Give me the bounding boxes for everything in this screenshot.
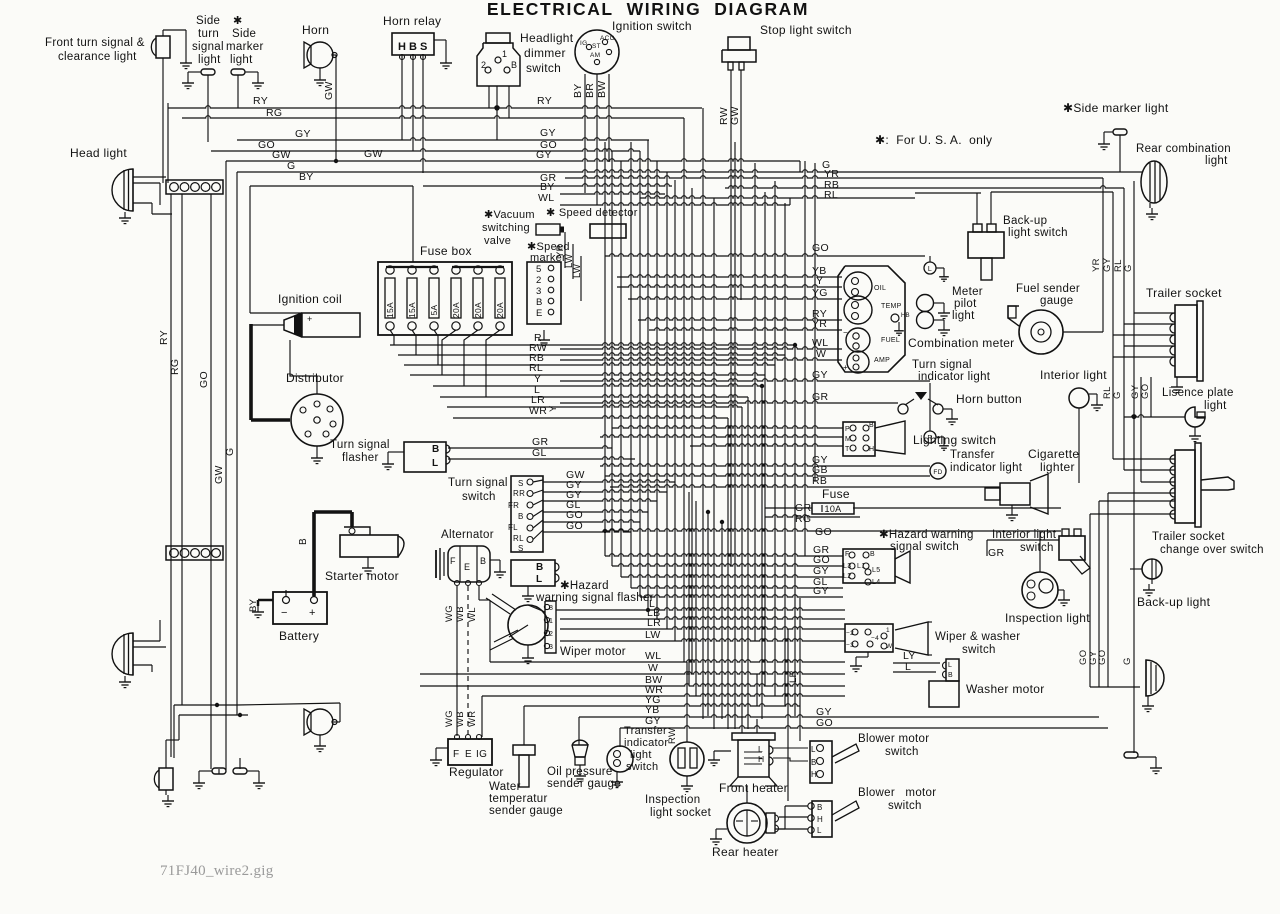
svg-text:light: light [230,54,253,66]
alt wire labels [444,605,478,622]
wire vertical runs [163,55,1151,803]
svg-text:RG: RG [169,359,181,375]
svg-text:switch: switch [462,491,496,503]
svg-text:3: 3 [549,644,553,651]
svg-text:GR: GR [988,547,1004,559]
interior light label [1040,368,1107,382]
svg-text:AMP: AMP [874,357,890,364]
svg-text:gauge: gauge [1040,295,1073,307]
svg-text:L2: L2 [843,573,851,580]
svg-text:temperatur: temperatur [489,793,548,805]
svg-text:20A: 20A [495,302,505,318]
ignition switch label [612,19,692,33]
battery [273,590,327,624]
blower motor switch (front) [810,741,859,783]
svg-text:WB: WB [455,711,466,727]
svg-text:clearance light: clearance light [58,51,137,63]
head light (bottom) [112,620,166,688]
svg-text:WR: WR [529,405,547,417]
svg-text:−3: −3 [846,642,854,649]
svg-text:FUEL: FUEL [881,337,900,344]
interior light [1069,388,1103,411]
svg-text:S: S [518,544,524,553]
blower switch1 label [858,733,929,758]
wire labels top-left [253,95,314,183]
svg-text:GO: GO [815,526,832,538]
inspection light label [1005,611,1090,625]
wiper and washer switch [845,622,932,672]
speed marker hooks [554,232,575,301]
svg-text:1: 1 [886,627,890,634]
svg-text:Meter: Meter [952,286,983,298]
alt wire labels2 [444,710,478,727]
svg-text:B: B [869,422,874,429]
lighting switch [843,421,905,456]
svg-text:flasher: flasher [342,452,379,464]
svg-text:Blower motor: Blower motor [858,787,936,799]
svg-text:10A: 10A [825,504,842,514]
svg-text:L: L [928,266,932,273]
regulator label [449,765,504,779]
stop light switch [722,37,756,70]
svg-text:G: G [1112,391,1123,399]
svg-text:switch: switch [1020,542,1054,554]
svg-text:✱: ✱ [233,15,243,27]
transfer indicator light switch [607,746,633,788]
svg-text:GY: GY [536,149,552,161]
wiper washer label [935,631,1020,656]
svg-text:indicator: indicator [624,737,668,749]
interior light switch label [992,529,1057,554]
svg-text:B: B [298,538,309,545]
svg-text:GW: GW [323,81,335,100]
svg-text:IG: IG [476,749,487,760]
svg-text:LR: LR [788,670,799,683]
svg-text:Interior light: Interior light [1040,368,1107,382]
svg-text:dimmer: dimmer [524,46,566,60]
wire labels RW GW stop [718,106,741,125]
RW label bottom [667,728,678,744]
svg-text:2: 2 [549,631,553,638]
svg-text:Stop light switch: Stop light switch [760,23,852,37]
svg-text:RY: RY [158,330,170,345]
svg-text:FD: FD [933,469,942,476]
svg-text:WG: WG [444,710,455,727]
svg-text:20A: 20A [451,302,461,318]
licence plate light [1185,407,1205,442]
regulator [430,735,492,766]
svg-text:FL: FL [508,523,518,532]
horn button label [956,392,1022,406]
inspection light socket label [645,794,712,819]
svg-text:OIL: OIL [874,285,886,292]
svg-text:✱ Speed detector: ✱ Speed detector [546,207,638,219]
svg-text:B: B [518,512,524,521]
svg-text:GO: GO [566,520,583,532]
rear comb label [1136,143,1231,167]
turn signal switch [508,476,543,553]
side marker light (top) [231,69,264,89]
svg-text:Interior light: Interior light [992,529,1057,541]
svg-text:H: H [811,770,817,779]
svg-text:H: H [869,446,874,453]
horn (bottom) [304,703,340,752]
svg-text:H: H [398,41,406,53]
svg-text:HB: HB [901,313,910,319]
svg-text:Wiper & washer: Wiper & washer [935,631,1020,643]
ts switch out labels [566,469,585,532]
svg-text:Back-up light: Back-up light [1137,595,1211,609]
front heater [708,733,777,786]
distributor top wire [290,340,317,394]
svg-text:RB: RB [812,475,827,487]
connector strip 2 [166,546,223,560]
BY wire to coil hook [250,312,302,314]
battery ground [252,600,273,618]
speed marker label [527,241,570,264]
svg-text:ACC: ACC [600,35,615,42]
note usa [875,133,992,147]
hazard flasher label [535,580,654,604]
hazard switch label [879,529,974,553]
front turn signal label [45,37,145,63]
svg-text:IG: IG [580,40,587,47]
svg-text:✱Side marker light: ✱Side marker light [1063,101,1169,115]
right vert labels [1091,257,1134,272]
inspection light socket [670,742,704,792]
inspection light [1022,572,1070,608]
svg-text:RY: RY [253,95,268,107]
trailer socket label [1146,286,1222,300]
vacuum switching valve [536,224,564,235]
trailer socket co label [1152,531,1264,556]
svg-text:Lisence plate: Lisence plate [1162,387,1234,399]
bottom marker lamp (G) [1124,752,1162,774]
svg-text:change over switch: change over switch [1160,544,1264,556]
rear heater label [712,845,779,859]
svg-text:Y: Y [816,275,823,287]
watermark text [160,863,274,879]
backup sw label [1003,215,1068,239]
svg-text:E: E [465,749,472,760]
svg-text:L3: L3 [843,563,851,570]
wire horizontal bus [168,106,1185,728]
cable B label [298,538,309,545]
svg-text:ELECTRICAL WIRING DIAGRAM: ELECTRICAL WIRING DIAGRAM [487,0,809,19]
svg-text:Combination meter: Combination meter [908,336,1014,350]
svg-text:T: T [845,446,850,453]
svg-text:−2: −2 [846,630,854,637]
vert labels left [158,330,236,484]
svg-text:GO: GO [812,242,829,254]
ignition coil label [278,292,342,306]
svg-text:YR: YR [1091,258,1102,272]
svg-text:B: B [409,41,417,53]
ignition coil [251,313,360,337]
svg-text:LR: LR [647,617,661,629]
back-up light lower [1142,660,1164,712]
svg-text:light: light [1204,400,1227,412]
back-up light switch [968,224,1004,280]
side lamps bottom [193,768,265,789]
svg-text:B: B [536,562,544,573]
washer motor label [966,682,1045,696]
front turn signal (bottom) [154,768,174,807]
svg-text:RL: RL [513,534,524,543]
turn signal ind label [912,359,991,383]
svg-text:signal: signal [192,41,224,53]
svg-text:Washer motor: Washer motor [966,682,1045,696]
svg-text:F: F [453,749,459,760]
svg-text:Inspection: Inspection [645,794,700,806]
svg-text:BY: BY [299,171,314,183]
L pilot [924,262,949,281]
svg-text:H: H [758,754,764,764]
svg-text:5: 5 [536,264,542,275]
svg-text:Inspection light: Inspection light [1005,611,1090,625]
side turn signal label [192,15,224,66]
speed wire labels [548,244,583,412]
svg-text:F: F [450,556,456,566]
svg-text:Front turn signal &: Front turn signal & [45,37,145,49]
svg-text:L: L [811,745,816,754]
bottom left wires [166,703,340,774]
svg-text:WL: WL [538,192,554,204]
svg-text:Cigarette: Cigarette [1028,447,1079,461]
meter wire labels [812,242,829,487]
oil pressure label [547,766,621,790]
battery BY label [248,598,259,612]
svg-text:W: W [886,643,893,650]
lighting switch label [913,433,996,447]
svg-text:Head light: Head light [70,146,127,160]
svg-text:Trailer socket: Trailer socket [1152,531,1225,543]
svg-text:sender gauge: sender gauge [547,778,621,790]
svg-text:light switch: light switch [1008,227,1068,239]
fuel sender label [1016,283,1080,307]
fuse out labels [529,332,548,459]
turn signal switch pin wires [533,480,543,540]
svg-text:RG: RG [795,513,811,525]
wire labels BY BR BW [572,80,608,98]
front heater to blower wires [773,748,808,761]
headlight dimmer switch [477,33,520,111]
fuse box [378,262,512,335]
washer wires [893,663,940,672]
R pilot [924,431,949,450]
svg-text:indicator light: indicator light [950,462,1023,474]
fuel sender gauge [1008,306,1063,354]
svg-text:Regulator: Regulator [449,765,504,779]
svg-text:GW: GW [364,148,383,160]
svg-text:switch: switch [962,644,996,656]
svg-text:R: R [927,435,932,442]
svg-text:light: light [198,54,221,66]
combination meter [838,266,910,373]
horn (top) [304,42,338,163]
svg-text:+: + [843,363,848,372]
svg-text:switching: switching [482,222,530,234]
svg-text:GR: GR [812,391,828,403]
svg-text:20A: 20A [473,302,483,318]
svg-text:L: L [817,826,822,835]
fuse box output wires [390,330,500,397]
svg-text:Ignition coil: Ignition coil [278,292,342,306]
blower2 wires [775,806,808,829]
junction dots mesh [603,343,797,612]
water temperature sender gauge [513,741,535,787]
svg-text:GO: GO [1140,384,1151,399]
svg-text:Fuse box: Fuse box [420,244,472,258]
svg-text:B: B [948,672,953,679]
ignition coil to distributor cable (thick) [251,324,290,420]
speed marker box [527,262,561,346]
svg-text:Rear combination: Rear combination [1136,143,1231,155]
svg-text:15A: 15A [407,302,417,318]
svg-text:−: − [281,607,288,619]
svg-text:WG: WG [444,605,455,622]
connector strip (headlight harness top) [166,180,223,194]
svg-text:Y: Y [548,405,559,412]
svg-text:Starter motor: Starter motor [325,569,399,583]
svg-text:W: W [648,662,658,674]
svg-text:GY: GY [812,369,828,381]
svg-text:GL: GL [532,447,547,459]
svg-text:Side: Side [196,15,220,27]
svg-text:L1: L1 [857,563,865,570]
backup light label [1137,595,1211,609]
wire labels top-mid [364,95,557,204]
svg-text:light socket: light socket [650,807,712,819]
LR vert label [788,670,799,683]
fuse 10A [812,503,854,514]
fuse box label [420,244,472,258]
svg-text:BR: BR [584,83,596,98]
svg-text:E: E [536,308,543,319]
svg-text:15A: 15A [385,302,395,318]
svg-text:Horn button: Horn button [956,392,1022,406]
wiper wire labels [645,598,661,641]
turn signal switch label [448,477,508,503]
svg-text:Transfer: Transfer [624,725,667,737]
hazard row labels [813,544,830,597]
svg-text:S: S [420,41,428,53]
svg-text:5A: 5A [429,304,439,315]
svg-text:L5: L5 [872,567,880,574]
svg-text:WL: WL [467,607,478,622]
svg-text:GY: GY [540,127,556,139]
svg-text:W: W [816,348,826,360]
washer motor [929,659,959,707]
battery cable to starter (thick) [314,512,352,596]
side marker light (right) [1098,129,1127,172]
alternator [436,546,506,586]
svg-text:switch: switch [885,746,919,758]
svg-text:P: P [845,426,850,433]
svg-text:−: − [843,328,848,337]
svg-text:lighter: lighter [1040,460,1075,474]
svg-text:H: H [817,815,823,824]
blower motor switch (rear) [808,801,859,837]
svg-text:L4: L4 [872,579,880,586]
side turn signal light (top) [182,69,215,89]
svg-text:GY: GY [295,128,311,140]
svg-text:Rear heater: Rear heater [712,845,779,859]
svg-text:Headlight: Headlight [520,31,574,45]
water temp label [489,781,563,817]
svg-text:71FJ40_wire2.gig: 71FJ40_wire2.gig [160,863,274,879]
svg-text:S: S [518,479,524,488]
turn signal flasher label [330,439,390,464]
svg-text:G: G [1122,657,1133,665]
svg-text:Horn: Horn [302,23,329,37]
svg-text:signal switch: signal switch [890,541,959,553]
svg-text:Oil pressure: Oil pressure [547,766,613,778]
svg-text:✱Hazard warning: ✱Hazard warning [879,529,974,541]
battery label [279,629,319,643]
svg-text:B: B [511,60,517,70]
svg-text:Distributor: Distributor [286,371,344,385]
svg-text:switch: switch [526,61,561,75]
blower switch2 label [858,787,936,812]
svg-text:2: 2 [481,60,486,70]
cigarette lighter [985,474,1048,521]
svg-text:LW: LW [572,264,583,278]
svg-text:LW: LW [645,629,661,641]
side marker right label [1063,101,1169,115]
svg-text:✱: For U. S. A. only: ✱: For U. S. A. only [875,133,992,147]
fuse label [822,487,850,501]
licence plate label [1162,387,1234,412]
svg-text:RR: RR [513,489,525,498]
backup round light wire [1130,415,1142,569]
svg-text:Front heater: Front heater [719,781,788,795]
trailer socket change over switch [1170,443,1234,527]
svg-text:light: light [952,310,975,322]
svg-text:3: 3 [536,286,542,297]
svg-text:G: G [224,448,236,456]
front heater label [719,781,788,795]
side marker label [226,15,264,66]
oil pressure sender gauge [572,740,588,781]
svg-text:+: + [309,607,316,619]
svg-text:warning signal flasher: warning signal flasher [535,592,654,604]
speed detector label [546,207,638,219]
svg-text:RW: RW [667,728,678,744]
svg-text:Turn signal: Turn signal [912,359,972,371]
svg-text:GO: GO [816,717,833,729]
speed detector [590,224,626,238]
transfer indicator light [930,463,946,479]
rear heater [710,803,779,845]
combination meter label [908,336,1014,350]
transfer ind sw label [624,725,668,773]
svg-text:B: B [536,297,543,308]
svg-text:RG: RG [266,107,282,119]
svg-text:GO: GO [198,371,210,388]
svg-text:WB: WB [455,606,466,622]
LY L labels [903,650,916,673]
svg-text:8: 8 [549,605,553,612]
rear combination light [1141,161,1167,220]
headlight dimmer label [520,31,574,75]
head light (front, top) [112,169,172,224]
right vert labels3 [1078,650,1133,665]
svg-text:E: E [464,562,470,572]
svg-text:ST: ST [592,43,601,50]
svg-text:pilot: pilot [954,298,977,310]
GR label int [988,547,1004,559]
